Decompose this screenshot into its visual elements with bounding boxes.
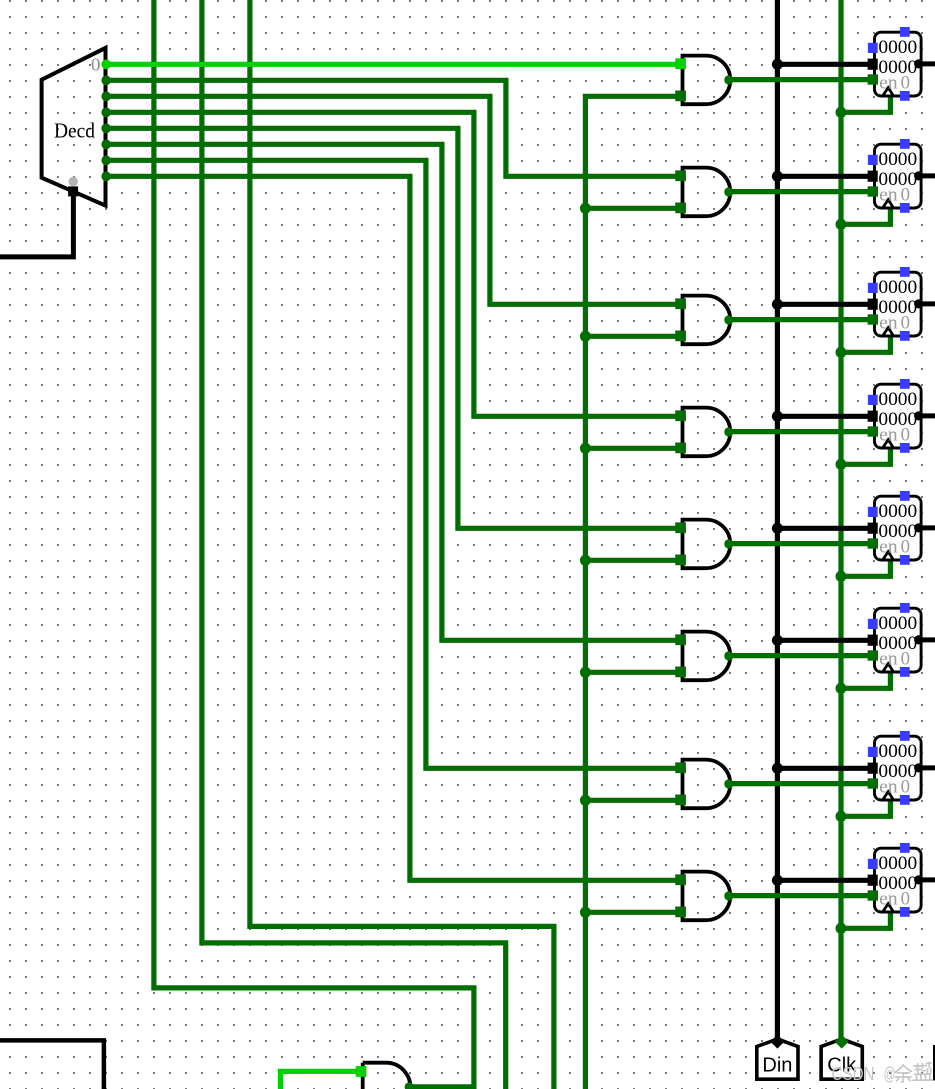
wire AND U9 output to register R8 enable [730, 893, 876, 898]
svg-text:Din: Din [762, 1054, 792, 1076]
junction Clk bus row 6 [836, 683, 847, 694]
wire Din branch to register D row 1 [777, 62, 875, 67]
svg-text:en: en [879, 536, 898, 557]
wire AND U10 output to net [410, 1084, 476, 1089]
junction Din bus row 4 [772, 411, 783, 422]
wire AND U8 output to register R7 enable [730, 781, 876, 786]
junction Clk bus row 4 [836, 459, 847, 470]
wire register R2 output Q to right edge [919, 173, 935, 178]
svg-text:en: en [879, 648, 898, 669]
register R4 (value 0000 0000, en0) [868, 379, 924, 453]
junction enable net row 8 [580, 907, 591, 918]
svg-text:0: 0 [901, 312, 910, 333]
wire Din branch to register D row 7 [777, 766, 875, 771]
AND gate U8 row 7 [675, 760, 733, 809]
junction enable net row 4 [580, 443, 591, 454]
AND gate U3 row 2 [675, 168, 733, 217]
svg-text:0000: 0000 [878, 853, 917, 874]
AND gate U5 row 4 [675, 408, 733, 457]
svg-text:en: en [879, 888, 898, 909]
svg-text:0: 0 [901, 184, 910, 205]
wire decoder out5 to AND U7 input [106, 144, 682, 640]
junction Clk bus row 7 [836, 811, 847, 822]
svg-text:Decd: Decd [54, 119, 95, 143]
wire enable branch to AND U9 [585, 910, 681, 915]
wire register R4 output Q to right edge [919, 413, 935, 418]
wire Clk branch to register clock row 2 [841, 207, 890, 225]
wire enable branch to AND U8 [585, 798, 681, 803]
junction enable net row 6 [580, 667, 591, 678]
decoder U1 label '0' (output 0) [91, 55, 101, 75]
wire net T1 (top to bottom-right) [154, 0, 474, 1089]
wire decoder out7 to AND U9 input [106, 176, 682, 880]
wire decoder out4 to AND U6 input [106, 128, 682, 528]
wire AND U4 output to register R3 enable [730, 317, 876, 322]
svg-text:0000: 0000 [878, 37, 917, 58]
wire Din branch to register D row 6 [777, 638, 875, 643]
svg-text:0000: 0000 [878, 389, 917, 410]
register R2 (value 0000 0000, en0) [868, 139, 924, 213]
wire net T3 (top to bottom-right) [250, 0, 554, 1089]
wire Clk branch to register clock row 1 [841, 95, 890, 113]
junction Din bus row 5 [772, 523, 783, 534]
input pin Din [757, 1035, 798, 1080]
AND gate U7 row 6 [675, 632, 733, 681]
svg-text:0: 0 [901, 648, 910, 669]
svg-text:0: 0 [901, 888, 910, 909]
wire AND U2 output to register R1 enable [730, 77, 876, 82]
component edge (bottom-right, partial) [933, 1045, 935, 1081]
wire register R6 output Q to right edge [919, 637, 935, 642]
wire decoder out1 to AND U3 input [106, 80, 682, 176]
wire enable branch to AND U3 [585, 206, 681, 211]
junction Clk bus row 3 [836, 347, 847, 358]
svg-text:0: 0 [91, 55, 101, 75]
register R3 (value 0000 0000, en0) [868, 267, 924, 341]
wire AND U3 output to register R2 enable [730, 189, 876, 194]
junction enable net row 5 [580, 555, 591, 566]
svg-text:0000: 0000 [878, 741, 917, 762]
component frame corner (bottom-left, partial) [0, 1040, 104, 1089]
register R6 (value 0000 0000, en0) [868, 603, 924, 677]
wire enable branch to AND U6 [585, 558, 681, 563]
wire Clk branch to register clock row 7 [841, 799, 890, 817]
svg-text:0: 0 [901, 776, 910, 797]
register R8 (value 0000 0000, en0) [868, 843, 924, 917]
wire decoder select to left edge [0, 194, 73, 257]
wire Clk branch to register clock row 6 [841, 671, 890, 689]
junction Din bus row 7 [772, 763, 783, 774]
wire bright net to bottom AND U10 [280, 1071, 362, 1089]
svg-text:en: en [879, 72, 898, 93]
junction Din bus row 1 [772, 59, 783, 70]
junction Din bus row 2 [772, 171, 783, 182]
svg-text:0: 0 [901, 424, 910, 445]
AND gate U2 row 1 [675, 56, 733, 105]
junction Clk bus row 1 [836, 107, 847, 118]
wire register R7 output Q to right edge [919, 765, 935, 770]
svg-text:0: 0 [901, 72, 910, 93]
wire Din bus vertical [775, 0, 780, 1041]
wire Din branch to register D row 2 [777, 174, 875, 179]
wire Clk branch to register clock row 5 [841, 559, 890, 577]
decoder U1 output pin dots [101, 60, 111, 182]
wire enable branch to AND U7 [585, 670, 681, 675]
junction Clk bus row 8 [836, 923, 847, 934]
wire AND U7 output to register R6 enable [730, 653, 876, 658]
svg-text:en: en [879, 184, 898, 205]
wire AND U5 output to register R4 enable [730, 429, 876, 434]
junction Din bus row 8 [772, 875, 783, 886]
wire register R8 output Q to right edge [919, 877, 935, 882]
junction enable net row 3 [580, 331, 591, 342]
svg-text:en: en [879, 312, 898, 333]
wire decoder out3 to AND U5 input [106, 112, 682, 416]
AND gate U4 row 3 [675, 296, 733, 345]
watermark CSDN @yulan [832, 1063, 933, 1085]
wire Clk bus vertical [838, 0, 843, 1041]
svg-text:en: en [879, 776, 898, 797]
wire decoder out0 (high) to AND U2 input [106, 62, 682, 67]
svg-text:0000: 0000 [878, 149, 917, 170]
wire Din branch to register D row 3 [777, 302, 875, 307]
wire Clk branch to register clock row 8 [841, 911, 890, 929]
register R5 (value 0000 0000, en0) [868, 491, 924, 565]
wire enable branch to AND U5 [585, 446, 681, 451]
wire register R3 output Q to right edge [919, 301, 935, 306]
svg-text:0: 0 [901, 536, 910, 557]
wire enable net vertical with row1 branch [585, 96, 681, 1089]
AND gate U10 (bottom, partially visible) [356, 1063, 414, 1089]
AND gate U6 row 5 [675, 520, 733, 569]
junction Clk bus row 5 [836, 571, 847, 582]
junction Din bus row 6 [772, 635, 783, 646]
wire Din branch to register D row 5 [777, 526, 875, 531]
wire decoder out2 to AND U4 input [106, 96, 682, 304]
wire enable branch to AND U4 [585, 334, 681, 339]
svg-text:0000: 0000 [878, 277, 917, 298]
input pin Clk [821, 1035, 862, 1080]
svg-text:0000: 0000 [878, 613, 917, 634]
junction enable net row 2 [580, 203, 591, 214]
svg-text:en: en [879, 424, 898, 445]
wire decoder out6 to AND U8 input [106, 160, 682, 768]
junction enable net row 7 [580, 795, 591, 806]
wire Din branch to register D row 4 [777, 414, 875, 419]
wire net T2 (top to bottom-right) [202, 0, 506, 1089]
wire AND U6 output to register R5 enable [730, 541, 876, 546]
wire register R5 output Q to right edge [919, 525, 935, 530]
wire register R1 output Q to right edge [919, 61, 935, 66]
wire Clk branch to register clock row 3 [841, 335, 890, 353]
AND gate U9 row 8 [675, 872, 733, 921]
decoder U1 select pin [68, 177, 78, 196]
register R1 (value 0000 0000, en0) [868, 27, 924, 101]
svg-text:CSDN: CSDN [832, 1063, 875, 1084]
svg-text:0000: 0000 [878, 501, 917, 522]
register R7 (value 0000 0000, en0) [868, 731, 924, 805]
wire Clk branch to register clock row 4 [841, 447, 890, 465]
junction Clk bus row 2 [836, 219, 847, 230]
svg-text:@: @ [884, 1063, 896, 1084]
wire Din branch to register D row 8 [777, 878, 875, 883]
junction Din bus row 3 [772, 299, 783, 310]
decoder U1 (Decd) [42, 48, 106, 206]
